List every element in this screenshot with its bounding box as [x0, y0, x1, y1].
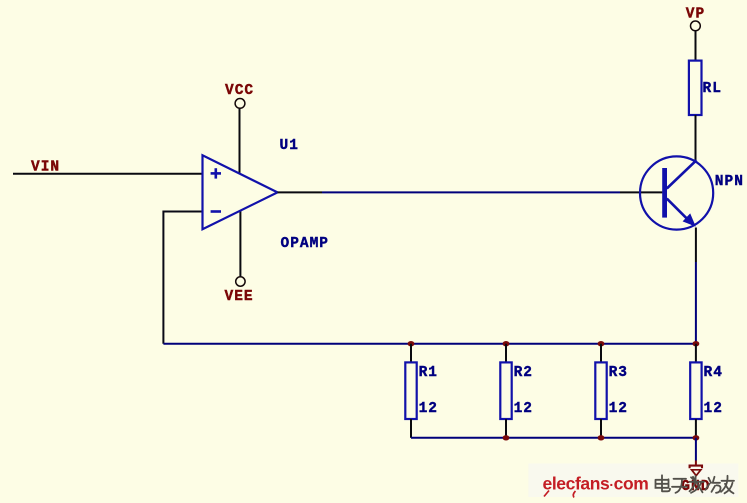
- char 子: [672, 479, 687, 493]
- svg-text:12: 12: [419, 401, 438, 417]
- collector stroke: [667, 160, 697, 188]
- wire feedback rail (top): [163, 343, 696, 345]
- base bar: [662, 168, 667, 218]
- watermark chinese characters (drawn strokes): [656, 475, 735, 493]
- svg-text:elecfans·com: elecfans·com: [543, 474, 649, 494]
- power port VEE: [225, 277, 254, 305]
- wire to ground: [695, 438, 697, 461]
- wire VEE stub: [239, 211, 241, 277]
- wire VIN: [13, 173, 203, 175]
- transistor Q1 NPN: [640, 156, 713, 229]
- svg-text:VP: VP: [686, 7, 705, 23]
- svg-text:12: 12: [609, 401, 628, 417]
- svg-text:VEE: VEE: [225, 289, 254, 305]
- char 电: [656, 475, 671, 491]
- svg-text:R1: R1: [419, 365, 438, 381]
- minus input mark: [211, 210, 221, 213]
- svg-text:RL: RL: [703, 81, 722, 97]
- junction node dots on bottom rail: [503, 435, 510, 440]
- svg-text:U1: U1: [280, 138, 299, 154]
- resistor R1: [405, 344, 416, 438]
- svg-text:12: 12: [514, 401, 533, 417]
- char 友: [721, 476, 734, 494]
- power port VP: [686, 7, 705, 31]
- wire op-amp output to transistor base: [322, 191, 620, 193]
- svg-text:R4: R4: [704, 365, 723, 381]
- svg-text:VCC: VCC: [225, 83, 254, 99]
- wire inverting input: [163, 212, 202, 344]
- resistor R3: [595, 344, 606, 438]
- junction node dots on top rail: [408, 341, 415, 346]
- svg-text:12: 12: [704, 401, 723, 417]
- plus input mark: [211, 172, 221, 175]
- wire emitter down: [695, 228, 697, 263]
- wire VCC stub: [239, 108, 241, 173]
- resistor RL: [689, 61, 702, 115]
- emitter stroke: [667, 199, 693, 225]
- char 烧: [706, 477, 721, 493]
- svg-text:R2: R2: [514, 365, 533, 381]
- char 发: [690, 476, 705, 493]
- op-amp U1: [203, 155, 278, 229]
- ground symbol: [690, 466, 702, 476]
- wire RL to collector: [695, 115, 697, 161]
- svg-text:R3: R3: [609, 365, 628, 381]
- svg-text:NPN: NPN: [715, 174, 744, 190]
- svg-text:OPAMP: OPAMP: [281, 236, 330, 252]
- elecfans logo accent swashes: [544, 491, 549, 497]
- emitter arrowhead: [683, 213, 696, 226]
- watermark panel: [528, 464, 738, 498]
- wire VP stub: [695, 31, 697, 61]
- power port VCC: [225, 83, 254, 108]
- wire bottom rail: [411, 437, 696, 439]
- resistor R2: [500, 344, 511, 438]
- resistor R4: [690, 344, 701, 438]
